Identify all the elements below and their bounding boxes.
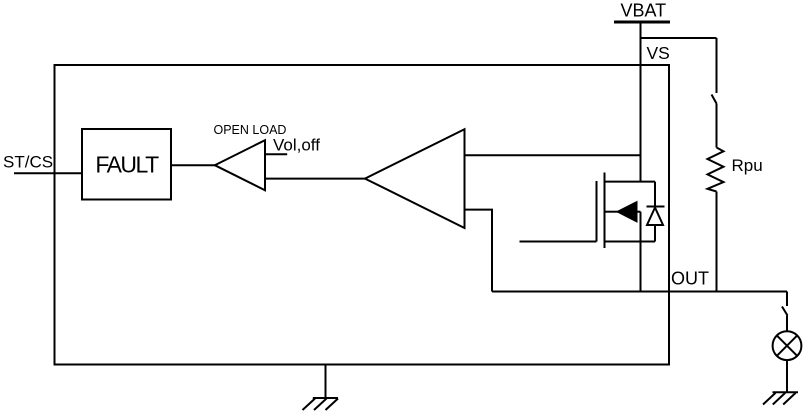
svg-text:Vol,off: Vol,off (273, 136, 320, 155)
svg-text:VS: VS (647, 43, 670, 63)
svg-text:VBAT: VBAT (621, 1, 667, 21)
svg-text:OUT: OUT (671, 269, 709, 289)
svg-text:FAULT: FAULT (95, 151, 159, 177)
svg-text:Rpu: Rpu (732, 156, 763, 175)
svg-text:ST/CS: ST/CS (3, 153, 53, 172)
